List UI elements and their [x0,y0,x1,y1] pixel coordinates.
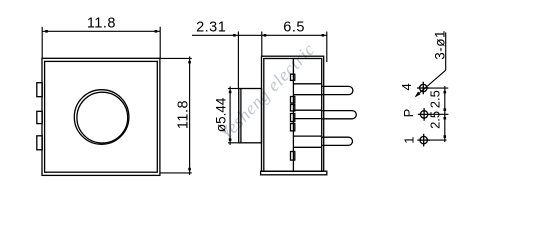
pin hole P [420,111,427,118]
dimension 2.5 x2 [429,86,449,142]
side view bottom flange [261,171,327,175]
knob circle inner [77,92,128,143]
svg-text:4: 4 [399,83,414,90]
internal divider [292,59,294,172]
divider tab lower [291,152,295,161]
svg-text:2.31: 2.31 [196,19,226,35]
divider stack square 4 [291,124,295,131]
side view body inner [264,59,322,172]
svg-text:ø5.44: ø5.44 [213,97,228,132]
divider tab upper [291,74,295,80]
front view inner square [45,61,158,172]
pin 1 side [322,86,353,94]
dimension 11.8 right [161,56,192,174]
svg-text:2.5: 2.5 [428,111,443,129]
svg-text:11.8: 11.8 [87,16,116,32]
pin 3 side [322,137,353,145]
dimension diameter 5.44 [228,86,239,144]
side view shaft [239,56,357,175]
knob circle outer [74,90,129,145]
divider stack square 3 [291,114,295,122]
side tab 1 [37,83,42,97]
divider stack square 1 [291,97,295,104]
pin slot lines [293,83,321,85]
pin 2 side [322,111,356,119]
pin hole 1 [420,136,427,143]
pin hole 4 [417,82,430,147]
leader 3-d1 [416,32,446,96]
front view outer square [42,58,160,175]
side tab 3 [37,136,42,150]
svg-text:1: 1 [401,137,416,144]
divider stack square 2 [291,105,295,112]
svg-text:3-ø1: 3-ø1 [433,30,448,60]
svg-text:P: P [401,109,416,118]
side tab 2 [37,111,42,123]
side view body outer [262,56,324,171]
dimension 11.8 top [42,27,160,58]
svg-text:2.5: 2.5 [428,90,443,108]
dimension 2.31 / 6.5 [192,32,327,89]
svg-text:11.8: 11.8 [176,100,192,129]
svg-text:6.5: 6.5 [283,20,305,36]
